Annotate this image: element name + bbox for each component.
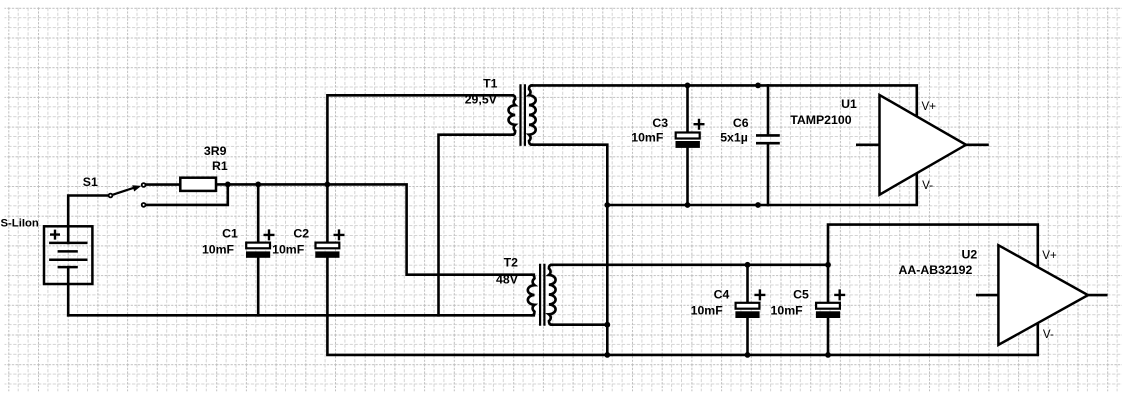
svg-text:R1: R1 xyxy=(212,159,228,173)
wire C6 branch top xyxy=(767,85,770,134)
wire ground rail C3 C6 to U1 V- xyxy=(607,173,917,205)
switch S1 throw B contact xyxy=(142,203,146,207)
wire C6 branch bottom xyxy=(767,144,770,205)
capacitor C1 bottom plate xyxy=(246,251,270,257)
capacitor C1 polarity plus xyxy=(264,229,275,240)
capacitor C3 bottom plate xyxy=(676,141,700,148)
junction T2 secondary bottom xyxy=(604,322,610,328)
capacitor C4 top plate xyxy=(736,303,760,309)
wire C4 branch bottom xyxy=(746,318,749,355)
resistor R1 body xyxy=(180,178,216,191)
wire C3 branch bottom xyxy=(686,148,689,205)
junction C6 bottom xyxy=(755,202,761,208)
capacitor C5 bottom plate xyxy=(816,311,840,318)
battery polarity plus xyxy=(50,230,60,240)
junction C5 top xyxy=(825,262,831,268)
junction C1 top xyxy=(255,182,261,188)
svg-text:V+: V+ xyxy=(1042,249,1057,262)
svg-text:10mF: 10mF xyxy=(631,131,664,145)
switch S1 common contact xyxy=(109,194,113,198)
junction ground rail left xyxy=(604,202,610,208)
capacitor C5 top plate xyxy=(816,303,840,309)
switch S1 throw A contact xyxy=(142,183,146,187)
capacitor C4 polarity plus xyxy=(754,289,765,300)
junction R1 output xyxy=(225,182,231,188)
svg-text:V-: V- xyxy=(1043,328,1054,341)
wire U1 input stub xyxy=(857,144,879,147)
capacitor C4 bottom plate xyxy=(735,311,759,318)
transformer T1 core xyxy=(521,85,525,144)
svg-text:5x1µ: 5x1µ xyxy=(720,131,748,145)
capacitor C1 top plate xyxy=(246,243,270,249)
svg-text:C6: C6 xyxy=(733,116,749,130)
wire switch throw A to resistor R1 xyxy=(146,183,180,186)
wire C2 bottom along bottom bus to U2 V- xyxy=(327,257,1037,355)
capacitor C3 top plate xyxy=(676,133,700,139)
svg-text:S-LiIon: S-LiIon xyxy=(1,218,39,230)
wire C1 branch bottom to return bus xyxy=(257,257,260,315)
svg-text:C3: C3 xyxy=(652,116,668,130)
wire T1 primary bottom to return bus xyxy=(439,135,513,316)
capacitor C6 plates xyxy=(756,135,780,143)
svg-text:10mF: 10mF xyxy=(691,304,724,318)
wire T1 secondary bottom down the common vertical xyxy=(532,145,608,355)
transformer T1 primary coil xyxy=(509,95,516,134)
svg-text:TAMP2100: TAMP2100 xyxy=(790,113,851,127)
svg-text:10mF: 10mF xyxy=(771,304,804,318)
svg-text:S1: S1 xyxy=(83,175,98,189)
wire C4 branch top xyxy=(746,265,749,303)
junction C2 riser xyxy=(325,182,331,188)
svg-text:29,5V: 29,5V xyxy=(465,93,498,107)
junction C4 top xyxy=(745,262,751,268)
op-amp U2 triangle xyxy=(998,245,1088,345)
wire C5 junction up to U2 V+ xyxy=(828,225,1038,268)
svg-text:V+: V+ xyxy=(922,100,937,113)
svg-text:C4: C4 xyxy=(714,288,730,302)
svg-text:U1: U1 xyxy=(841,97,857,111)
svg-text:C5: C5 xyxy=(793,288,809,302)
svg-text:10mF: 10mF xyxy=(202,242,235,256)
svg-text:U2: U2 xyxy=(962,247,978,261)
svg-text:C1: C1 xyxy=(222,226,238,240)
svg-text:AA-AB32192: AA-AB32192 xyxy=(898,263,972,277)
junction C5 bottom xyxy=(825,352,831,358)
svg-text:V-: V- xyxy=(922,179,933,192)
transformer T1 secondary coil xyxy=(529,85,536,144)
wire C5 branch bottom xyxy=(827,318,830,355)
wire T1 secondary top bus to U1 V+ xyxy=(532,85,917,116)
capacitor C5 polarity plus xyxy=(834,289,845,300)
wire T2 secondary bottom to common vertical xyxy=(552,323,608,326)
svg-text:T2: T2 xyxy=(504,256,519,270)
junction C6 top xyxy=(755,83,761,89)
op-amp U1 triangle xyxy=(880,95,967,195)
wire C5 branch top xyxy=(827,265,830,303)
wire return bus to T2 primary bottom xyxy=(68,314,534,317)
transformer T2 core xyxy=(540,265,544,325)
svg-text:3R9: 3R9 xyxy=(204,144,227,158)
junction common vertical bottom bus xyxy=(604,352,610,358)
wire C2 branch top xyxy=(326,184,329,243)
wire R1 bypass to switch throw B xyxy=(146,184,228,205)
svg-text:10mF: 10mF xyxy=(272,242,305,256)
capacitor C2 bottom plate xyxy=(315,251,339,257)
svg-text:C2: C2 xyxy=(293,226,309,240)
junction C3 top xyxy=(685,83,691,89)
switch S1 lever arrowhead xyxy=(132,185,141,191)
wire U2 output stub xyxy=(1088,294,1106,297)
svg-text:T1: T1 xyxy=(483,77,498,91)
capacitor C2 top plate xyxy=(316,243,340,249)
transformer T2 primary coil xyxy=(528,275,535,316)
wire main bus R1 to T2 primary top feed xyxy=(216,184,534,274)
wire C3 branch top xyxy=(686,85,689,132)
capacitor C3 polarity plus xyxy=(694,119,705,130)
junction C4 bottom xyxy=(745,352,751,358)
switch S1 lever xyxy=(113,187,137,195)
wire U1 output stub xyxy=(966,144,988,147)
transformer T2 secondary coil xyxy=(549,265,556,325)
wire battery negative down to return bus xyxy=(67,267,70,315)
svg-text:48V: 48V xyxy=(496,273,519,287)
battery S-LiIon plates xyxy=(49,243,87,267)
junction C3 bottom xyxy=(685,202,691,208)
wire U2 input stub xyxy=(977,294,998,297)
wire riser bus to T1 primary top xyxy=(327,95,512,184)
wire C1 branch top xyxy=(257,184,260,243)
battery S-LiIon box xyxy=(44,226,92,284)
capacitor C2 polarity plus xyxy=(334,229,345,240)
wire battery positive to switch common xyxy=(68,196,108,243)
wire T2 secondary top to C4 C5 bus xyxy=(552,263,828,266)
